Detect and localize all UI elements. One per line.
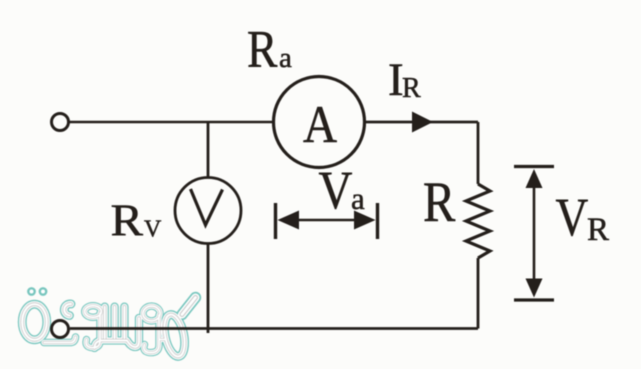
- watermark logo "موسوعة": [22, 288, 195, 358]
- svg-text:R: R: [111, 196, 144, 246]
- tick right: [376, 203, 379, 239]
- tick bottom: [514, 298, 554, 301]
- svg-text:R: R: [587, 212, 609, 248]
- tick top: [514, 165, 554, 168]
- arrowhead left: [278, 211, 300, 230]
- wire top horizontal: [69, 121, 274, 124]
- arrow line: [533, 184, 536, 284]
- ammeter A: [274, 77, 365, 168]
- wire voltmeter branch upper: [207, 122, 210, 178]
- voltmeter needle V glyph: [191, 189, 223, 225]
- circuit ink: [52, 77, 491, 338]
- terminal top-left: [52, 114, 69, 131]
- svg-text:A: A: [303, 94, 337, 153]
- svg-text:V: V: [144, 217, 162, 243]
- wire bottom horizontal: [70, 327, 478, 330]
- terminal bottom-left: [52, 321, 69, 338]
- voltmeter V circle: [175, 178, 241, 244]
- teh marbuta dots: [28, 288, 46, 294]
- svg-text:a: a: [351, 181, 365, 216]
- arrowhead down: [526, 279, 543, 298]
- svg-text:a: a: [279, 42, 292, 74]
- current arrow IR on top wire: [412, 112, 433, 133]
- VR measurement ticks and vertical double arrow: [514, 167, 554, 301]
- wire ammeter to corner: [365, 121, 479, 124]
- wire voltmeter branch lower: [207, 243, 210, 333]
- svg-text:R: R: [402, 73, 421, 104]
- Va measurement ticks and double arrow: [276, 203, 378, 239]
- arrowhead up: [526, 169, 543, 188]
- resistor R zigzag: [466, 184, 490, 258]
- svg-text:R: R: [423, 171, 456, 233]
- svg-text:V: V: [556, 187, 589, 247]
- svg-text:R: R: [247, 19, 277, 78]
- wire right vertical lower: [477, 258, 480, 329]
- arrowhead right: [354, 211, 376, 230]
- svg-text:V: V: [319, 160, 353, 220]
- tick left: [274, 203, 277, 239]
- wire right vertical upper: [477, 122, 480, 184]
- arrow line: [292, 219, 362, 222]
